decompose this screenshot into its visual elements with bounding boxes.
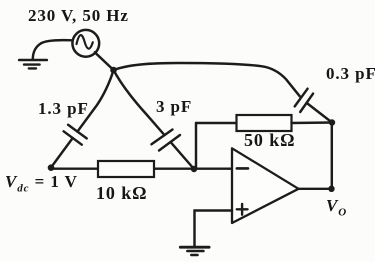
label: Vo bbox=[326, 196, 347, 218]
wire: bottom rail Vdc to op-amp inverting input bbox=[51, 167, 232, 169]
node A (top junction) bbox=[110, 67, 117, 74]
node Vo (output dot) bbox=[328, 186, 334, 192]
ground (op-amp + input) bbox=[180, 247, 209, 255]
wire: node B down to output node bbox=[331, 123, 333, 190]
wire: left ground to AC source bbox=[33, 40, 73, 59]
node B (feedback top node) bbox=[329, 119, 335, 125]
label: 1.3 pF bbox=[38, 99, 89, 119]
capacitor C1: 1.3 pF plates bbox=[64, 125, 87, 145]
node C (junction dot) bbox=[191, 166, 197, 172]
label: 50 kOhm bbox=[244, 130, 295, 151]
ground (left, AC source) bbox=[19, 60, 47, 68]
wire: 0.3 pF capacitor to node B bbox=[307, 103, 332, 123]
wire: AC source to node A bbox=[95, 52, 114, 70]
label: 3 pF bbox=[156, 97, 192, 117]
label: 10 kOhm bbox=[96, 183, 147, 204]
capacitor C2: 3 pF plates bbox=[152, 130, 181, 151]
node Vdc (dot) bbox=[48, 164, 55, 171]
wire: 1.3 pF capacitor to node Vdc bbox=[51, 138, 73, 168]
wire: node A curved to 0.3 pF capacitor bbox=[114, 63, 300, 96]
wire: op-amp output to node Vo bbox=[299, 188, 332, 190]
AC source (230 V, 50 Hz) bbox=[72, 30, 99, 57]
capacitor C: 0.3 pF plates bbox=[295, 89, 313, 112]
wire: corner to 50k resistor bbox=[196, 122, 237, 124]
wire: op-amp non-inverting input to ground bbox=[195, 211, 233, 247]
wire: node C up to 50k branch bbox=[195, 123, 197, 169]
resistor R1: 10 kOhm box bbox=[98, 161, 154, 177]
resistor R2: 50 kOhm box bbox=[237, 115, 292, 131]
op-amp U1 bbox=[232, 148, 299, 223]
wire: 50k resistor to node B bbox=[292, 121, 333, 124]
label: 0.3 pF bbox=[326, 64, 375, 84]
wire: 3 pF capacitor to node C bbox=[171, 142, 194, 169]
wire: node A to 3 pF capacitor (upper segment) bbox=[114, 70, 165, 135]
label: 230 V, 50 Hz bbox=[28, 6, 129, 26]
label: Vdc = 1 V bbox=[5, 172, 78, 194]
wire: node A to 1.3 pF capacitor (upper segment) bbox=[77, 70, 113, 132]
